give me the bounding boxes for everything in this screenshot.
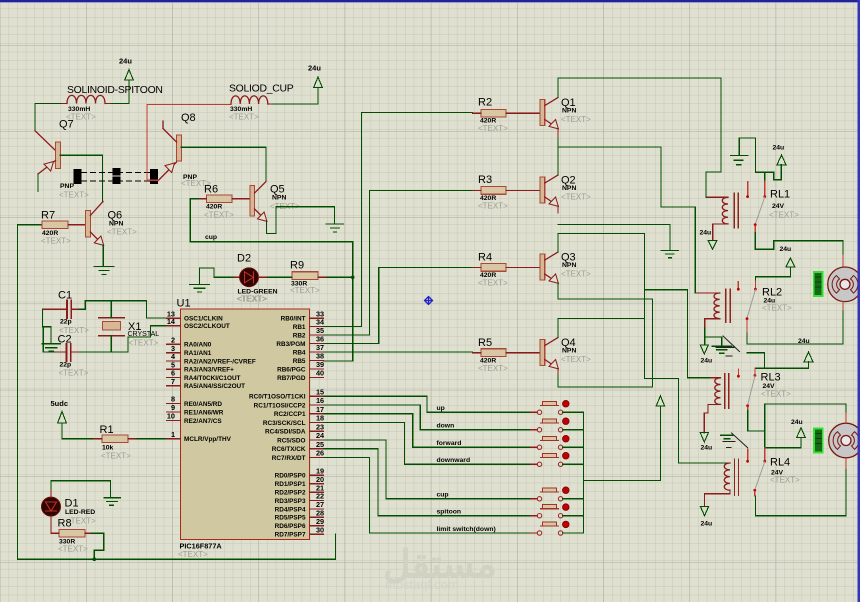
ground (RL1) (731, 156, 748, 165)
svg-text:R9: R9 (290, 260, 304, 272)
capacitor C2 22p (55, 334, 89, 378)
svg-text:RL4: RL4 (770, 457, 790, 469)
resistor R3 420R (473, 174, 541, 211)
svg-text:RE2/AN7/CS: RE2/AN7/CS (184, 418, 222, 425)
LED D1 LED-RED (42, 489, 97, 533)
svg-text:24u: 24u (119, 57, 132, 66)
wire RL1 contact to motor1 (755, 233, 843, 256)
wire C2 right to OSC2 (80, 326, 181, 352)
wire forward from pin row (324, 414, 531, 448)
wire Q4 emitter (558, 375, 653, 387)
svg-text:NPN: NPN (562, 185, 576, 192)
svg-text:22p: 22p (60, 319, 72, 326)
svg-text:cup: cup (205, 234, 217, 241)
svg-text:NPN: NPN (272, 195, 286, 202)
ground (D1) (104, 498, 121, 506)
wire ground to D2 (200, 268, 235, 285)
svg-text:RC7/RX/DT: RC7/RX/DT (272, 455, 306, 462)
svg-text:RD1/PSP1: RD1/PSP1 (275, 481, 306, 488)
wire up from pin row (324, 396, 531, 412)
svg-text:RB6/PGC: RB6/PGC (277, 366, 306, 373)
svg-text:NPN: NPN (109, 221, 123, 228)
svg-text:RB0/INT: RB0/INT (281, 316, 306, 323)
svg-text:30: 30 (316, 525, 324, 534)
relay RL4 switch (746, 448, 766, 496)
ground loop (RL1) (739, 138, 781, 180)
svg-text:RA5/AN4/SS/C2OUT: RA5/AN4/SS/C2OUT (184, 383, 245, 390)
svg-text:OSC1/CLKIN: OSC1/CLKIN (184, 316, 223, 323)
svg-text:40: 40 (316, 369, 324, 378)
switch forward (437, 435, 584, 449)
svg-text:down: down (437, 423, 455, 430)
svg-text:24u: 24u (700, 230, 712, 237)
svg-text:15: 15 (316, 388, 324, 397)
wire downward from pin row (324, 422, 531, 464)
svg-text:D1: D1 (65, 498, 79, 510)
svg-text:14: 14 (167, 317, 176, 326)
svg-text:NPN: NPN (562, 262, 576, 269)
motor M1 (814, 267, 860, 311)
svg-text:RD4/PSP4: RD4/PSP4 (275, 506, 306, 513)
svg-text:<TEXT>: <TEXT> (59, 369, 89, 378)
wire motor2 top (765, 404, 846, 412)
svg-text:R2: R2 (478, 97, 492, 109)
svg-text:24u: 24u (308, 64, 321, 73)
wire RB4 to R5 (324, 351, 473, 353)
svg-text:forward: forward (437, 440, 462, 447)
wire Q3 emitter (558, 234, 653, 387)
power 5udc (51, 399, 94, 439)
svg-text:RB5: RB5 (293, 358, 306, 365)
LED D2 LED-GREEN (235, 253, 278, 304)
svg-text:18: 18 (316, 414, 324, 423)
svg-text:Q7: Q7 (59, 119, 74, 131)
power 24u up (RL4 feed) (765, 419, 806, 448)
svg-text:17: 17 (316, 405, 324, 414)
wire Q8 base (181, 147, 266, 181)
transistor Q5 NPN (250, 182, 300, 222)
svg-text:24u: 24u (780, 246, 792, 253)
ground (Q5) (326, 224, 344, 232)
wire Q6 emitter to ground (102, 245, 104, 266)
switch limit switch(down) (437, 521, 584, 535)
svg-text:Q8: Q8 (181, 112, 196, 124)
svg-text:<TEXT>: <TEXT> (204, 211, 234, 220)
switch spitoon (437, 504, 584, 518)
svg-text:R1: R1 (100, 424, 114, 436)
switch cup (437, 487, 584, 501)
svg-text:R8: R8 (58, 518, 72, 530)
svg-text:RD2/PSP2: RD2/PSP2 (275, 490, 306, 497)
svg-text:mostaql.com: mostaql.com (385, 577, 459, 592)
svg-text:D2: D2 (237, 253, 251, 265)
svg-text:RC0/T1OSO/T1CKI: RC0/T1OSO/T1CKI (249, 394, 306, 401)
mechanical link (dashed gang) (74, 168, 159, 184)
transistor Q4 NPN (540, 337, 591, 375)
svg-text:10k: 10k (102, 445, 114, 452)
svg-text:SOLINOID-SPITOON: SOLINOID-SPITOON (67, 85, 163, 96)
svg-text:RE1/AN6/WR: RE1/AN6/WR (184, 409, 224, 416)
svg-text:24u: 24u (798, 338, 810, 345)
svg-text:24u: 24u (701, 358, 713, 365)
relay RL1 switch (746, 172, 766, 232)
wire motor2 bottom to RL4 contact (756, 470, 847, 516)
inductor SOLIOD_CUP 330mH (229, 96, 268, 122)
svg-text:<TEXT>: <TEXT> (478, 202, 508, 211)
svg-text:RA4/T0CKI/C1OUT: RA4/T0CKI/C1OUT (184, 375, 241, 382)
transistor Q2 NPN (540, 175, 591, 214)
wire inductor to 24u arrow (268, 103, 273, 105)
svg-text:RD0/PSP0: RD0/PSP0 (275, 473, 306, 480)
svg-text:<TEXT>: <TEXT> (561, 355, 591, 364)
svg-text:5udc: 5udc (51, 399, 69, 408)
svg-text:RC1/T1OSI/CCP2: RC1/T1OSI/CCP2 (254, 402, 306, 409)
svg-text:RA1/AN1: RA1/AN1 (184, 350, 212, 357)
wire inductor left down (35, 104, 62, 131)
svg-text:<TEXT>: <TEXT> (769, 211, 799, 220)
wire spitoon from pin row (324, 449, 531, 516)
power 24u up (RL3 feed) (755, 338, 813, 368)
ground (Q2 emitter) (661, 224, 679, 257)
svg-text:R3: R3 (478, 174, 492, 186)
svg-text:R5: R5 (478, 337, 492, 349)
svg-text:<TEXT>: <TEXT> (237, 295, 267, 304)
svg-text:RA2/AN2/VREF-/CVREF: RA2/AN2/VREF-/CVREF (184, 358, 256, 365)
svg-text:24u: 24u (701, 445, 713, 452)
wire RB3 to R4 (324, 267, 473, 343)
svg-text:<TEXT>: <TEXT> (101, 452, 131, 461)
wire C1 right to OSC1 (79, 301, 180, 318)
svg-text:RB4: RB4 (293, 349, 306, 356)
svg-text:24u: 24u (773, 145, 785, 152)
svg-text:cup: cup (437, 492, 449, 499)
svg-text:RB3/PGM: RB3/PGM (276, 341, 305, 348)
resistor R5 420R (473, 337, 541, 373)
transistor Q6 NPN (86, 202, 138, 246)
svg-text:<TEXT>: <TEXT> (478, 279, 508, 288)
wire Q1 emitter / Q2 collector trunk (558, 139, 711, 378)
wire RB1 to R2 (324, 113, 473, 327)
relay RL4 coil 24V (705, 457, 801, 507)
svg-text:RL3: RL3 (761, 372, 781, 384)
switch up (437, 400, 584, 414)
power 24u up (RL2 contact) (755, 246, 794, 277)
ground (RL3 area) (721, 435, 734, 438)
wire C1/C2 left to ground (42, 309, 55, 352)
wire bus to 5V arrow (583, 406, 660, 480)
svg-text:<TEXT>: <TEXT> (478, 364, 508, 373)
svg-text:<TEXT>: <TEXT> (59, 191, 89, 200)
wire RL3 contact to RL4 switch (748, 404, 765, 448)
svg-text:<TEXT>: <TEXT> (561, 270, 591, 279)
svg-text:RL1: RL1 (770, 189, 790, 201)
svg-text:RB2: RB2 (293, 332, 306, 339)
resistor R8 330R (51, 518, 91, 554)
resistor R4 420R (473, 252, 541, 288)
svg-text:25: 25 (316, 440, 324, 449)
svg-text:RC6/TX/CK: RC6/TX/CK (272, 446, 306, 453)
svg-text:RD7/PSP7: RD7/PSP7 (275, 532, 306, 539)
svg-text:<TEXT>: <TEXT> (129, 338, 159, 347)
svg-text:24V: 24V (772, 203, 785, 210)
svg-text:R6: R6 (204, 184, 218, 196)
power arrow (switch bus) (656, 396, 664, 406)
svg-text:23: 23 (316, 422, 324, 431)
watermark (383, 544, 497, 592)
svg-text:420R: 420R (206, 204, 222, 211)
power 24u up (RL1 contact) (773, 145, 787, 165)
svg-text:RD6/PSP6: RD6/PSP6 (275, 523, 306, 530)
svg-text:<TEXT>: <TEXT> (107, 228, 137, 237)
wire R8 to bottom rail (91, 533, 103, 559)
net wire cup (190, 234, 352, 361)
svg-text:RA0/AN0: RA0/AN0 (184, 342, 212, 349)
resistor R2 420R (473, 97, 541, 134)
wire Q1 collector to RL1 (558, 78, 721, 197)
svg-text:downward: downward (437, 457, 471, 464)
top window border (0, 0, 860, 2)
svg-text:24u: 24u (701, 521, 713, 528)
svg-text:<TEXT>: <TEXT> (229, 113, 259, 122)
wire Q5 emitter to ground (267, 207, 335, 234)
svg-text:RC2/CCP1: RC2/CCP1 (274, 411, 306, 418)
svg-text:<TEXT>: <TEXT> (561, 115, 591, 124)
svg-text:RB7/PGD: RB7/PGD (277, 375, 306, 382)
svg-text:<TEXT>: <TEXT> (770, 476, 800, 485)
origin marker (425, 297, 433, 305)
svg-text:RE0/AN5/RD: RE0/AN5/RD (184, 401, 222, 408)
svg-text:C1: C1 (58, 290, 72, 302)
relay RL2 coil 24u (697, 287, 793, 345)
transistor Q7 PNP (35, 119, 89, 200)
svg-text:<TEXT>: <TEXT> (561, 193, 591, 202)
contact glyph (RL2 aux) (716, 336, 740, 356)
ground (C1/C2) (42, 344, 61, 352)
wire limit switch(down) from pin row (324, 457, 531, 533)
svg-text:10: 10 (167, 412, 175, 421)
wire motor1 bottom to RL2 contact (747, 311, 843, 368)
relay RL3 coil 24V (704, 372, 791, 433)
svg-text:<TEXT>: <TEXT> (58, 545, 88, 554)
transistor Q3 NPN (540, 252, 591, 284)
resistor R1 10k (94, 424, 181, 461)
microcontroller U1 PIC16F877A (167, 295, 326, 560)
relay RL2 switch (737, 277, 757, 333)
svg-text:7: 7 (171, 377, 175, 386)
svg-text:24u: 24u (791, 419, 803, 426)
svg-text:RC3/SCK/SCL: RC3/SCK/SCL (263, 420, 306, 427)
svg-text:NPN: NPN (562, 108, 576, 115)
wire down from pin row (324, 405, 531, 430)
wire cup from pin row (324, 440, 531, 499)
crystal X1 (99, 301, 160, 352)
wire Q7 base to Q6 collector (60, 155, 102, 201)
left rail R7 to bottom (17, 225, 335, 559)
svg-text:PNP: PNP (60, 183, 74, 190)
resistor R7 420R (41, 210, 86, 246)
svg-text:up: up (437, 405, 445, 412)
relay RL3 switch (737, 368, 756, 410)
svg-text:24: 24 (316, 431, 325, 440)
svg-text:OSC2/CLKOUT: OSC2/CLKOUT (184, 323, 230, 330)
power 24u down (RL1 coil) (700, 230, 717, 250)
svg-text:<TEXT>: <TEXT> (290, 286, 320, 295)
wire D1 top to ground (51, 481, 110, 498)
svg-text:RD5/PSP5: RD5/PSP5 (275, 515, 306, 522)
power 24u down (RL3 coil) (700, 433, 712, 452)
power 24u (cup) (308, 64, 322, 88)
svg-text:<TEXT>: <TEXT> (761, 390, 791, 399)
svg-text:RB1: RB1 (293, 324, 306, 331)
motor M2 (814, 412, 860, 470)
inductor SOLINOID-SPITOON 330mH (66, 95, 129, 121)
wire Q8 emitter to inductor CUP (red) (147, 105, 231, 181)
svg-text:<TEXT>: <TEXT> (178, 550, 208, 559)
switch downward (437, 452, 584, 466)
svg-text:R4: R4 (478, 252, 492, 264)
power 24u down (RL4 coil) (700, 507, 712, 528)
svg-text:R7: R7 (41, 210, 55, 222)
wire RB2 to R3 (324, 190, 473, 335)
svg-text:limit switch(down): limit switch(down) (437, 526, 496, 533)
svg-text:26: 26 (316, 449, 324, 458)
svg-text:SOLIOD_CUP: SOLIOD_CUP (229, 84, 294, 95)
transistor Q1 NPN (540, 97, 591, 139)
svg-text:<TEXT>: <TEXT> (762, 304, 792, 313)
svg-text:RC5/SDO: RC5/SDO (277, 437, 305, 444)
svg-text:<TEXT>: <TEXT> (478, 124, 508, 133)
svg-text:spitoon: spitoon (437, 509, 462, 516)
svg-text:U1: U1 (177, 298, 191, 310)
ground (Q6) (94, 267, 114, 275)
contact glyph (RL3/RL4 aux) (723, 433, 748, 448)
svg-text:NPN: NPN (562, 348, 576, 355)
right window border (857, 0, 860, 602)
ground (D2) (190, 285, 210, 293)
svg-text:16: 16 (316, 396, 324, 405)
svg-text:1: 1 (171, 430, 175, 439)
resistor R6 420R (190, 184, 250, 242)
resistor R9 330R (268, 260, 355, 295)
capacitor C1 22p (42, 290, 89, 336)
svg-text:RA3/AN3/VREF+: RA3/AN3/VREF+ (184, 367, 234, 374)
relay RL1 coil 24V (708, 189, 800, 241)
transistor Q8 PNP (159, 112, 212, 188)
power 24u down (RL2 coil) (700, 345, 712, 365)
wire Q4 collector to RL3/RL4 (558, 318, 730, 463)
svg-text:MCLR/Vpp/THV: MCLR/Vpp/THV (184, 436, 232, 443)
switch bus (582, 412, 584, 533)
svg-text:RC4/SDI/SDA: RC4/SDI/SDA (265, 429, 306, 436)
power 24u top-left (119, 57, 133, 104)
svg-text:22p: 22p (60, 362, 72, 369)
ground (RL2 coil) (705, 337, 732, 353)
switch down (437, 418, 584, 432)
svg-text:RD3/PSP3: RD3/PSP3 (275, 498, 306, 505)
svg-text:LED-RED: LED-RED (65, 509, 95, 516)
svg-text:<TEXT>: <TEXT> (41, 237, 71, 246)
